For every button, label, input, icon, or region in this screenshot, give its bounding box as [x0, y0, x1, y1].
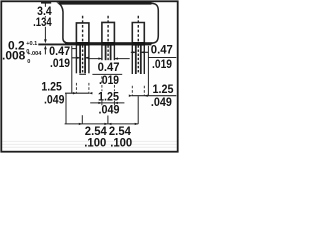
svg-text:.049: .049 [44, 93, 65, 107]
lead 1 centerline (dashed) [82, 16, 84, 42]
center 0.47 dim line segments [88, 58, 130, 60]
faint scan streaks [2, 141, 177, 147]
svg-text:.019: .019 [50, 56, 70, 70]
lead 3 shoulder [132, 23, 144, 46]
right 1.25 dim line [132, 95, 177, 97]
lead 3 lower lines cluster [132, 45, 144, 74]
lead 3 centerline (dashed) [137, 16, 139, 42]
right fraction bar [148, 57, 176, 59]
right 0.47 arrows [132, 51, 136, 53]
svg-text:0.47: 0.47 [98, 60, 120, 74]
lead 1 shoulder extension dashes [76, 83, 89, 93]
lead 2 base black bar [101, 42, 115, 46]
left 0.47 arrows [77, 57, 81, 59]
body top edge (thick) [59, 2, 152, 5]
svg-text:1.25: 1.25 [41, 79, 62, 93]
dim 0.2 up arrow below plate [44, 45, 47, 49]
lead 1 lower lines cluster [76, 45, 89, 73]
svg-text:0: 0 [27, 59, 30, 65]
bottom extension line lead1 center [81, 115, 83, 124]
svg-text:.049: .049 [151, 95, 172, 109]
lead 3 shoulder extension dashes [132, 86, 144, 96]
svg-text:+.004: +.004 [27, 51, 42, 57]
center 1.25 dim line [90, 102, 124, 104]
right 1.25 arrows [129, 95, 133, 97]
bottom 2.54 dim line [65, 123, 139, 125]
lead 2 shoulder [102, 22, 115, 45]
svg-text:0.47: 0.47 [151, 43, 173, 57]
right column separator vertical [147, 46, 149, 96]
lead 1 bottom cap [79, 73, 86, 75]
dim 3.4 top reference tick [41, 2, 51, 4]
svg-text:1.25: 1.25 [98, 89, 119, 103]
svg-text:.134: .134 [33, 15, 52, 29]
lead 1 shoulder [76, 23, 89, 45]
package body outline [59, 3, 159, 43]
seating plate line [38, 43, 151, 45]
body bottom edge (thick) [65, 42, 153, 44]
center 0.47 arrows [98, 57, 102, 59]
bottom arrows [79, 123, 83, 125]
svg-text:.049: .049 [99, 103, 120, 117]
dim 3.4 down arrow [44, 39, 47, 43]
svg-text:.100: .100 [110, 136, 132, 150]
svg-text:.008: .008 [2, 48, 26, 62]
svg-text:.100: .100 [84, 136, 106, 150]
left 1.25 arrows [73, 92, 77, 94]
center fraction bar [92, 73, 122, 75]
left 1.25 dim line [65, 92, 89, 94]
bottom extension line lead3 center [137, 96, 139, 124]
svg-text:.019: .019 [152, 57, 172, 71]
lead 1 base black bar [76, 42, 90, 46]
dim 3.4 vertical line [44, 3, 46, 39]
lead 3 base black bar [132, 42, 145, 46]
svg-text:+0.1: +0.1 [26, 41, 37, 47]
svg-text:1.25: 1.25 [153, 82, 174, 96]
lead 2 centerline (dashed) [107, 16, 109, 42]
left 0.47 fraction bar / dim line [72, 57, 90, 59]
lead 2 lower lines cluster [102, 45, 115, 60]
bottom connector vertical from left 1.25 line [65, 93, 67, 124]
page background [0, 0, 179, 153]
label 3.4 background [37, 7, 52, 16]
center 1.25 arrows [98, 102, 102, 104]
svg-text:.019: .019 [99, 73, 119, 87]
right 0.47 dim line segments [131, 51, 148, 53]
lead 2 shoulder extension dashes [102, 76, 115, 91]
bottom extension line lead2 center [107, 116, 109, 124]
left column separator vertical [71, 46, 73, 93]
left column top stub [72, 48, 77, 50]
